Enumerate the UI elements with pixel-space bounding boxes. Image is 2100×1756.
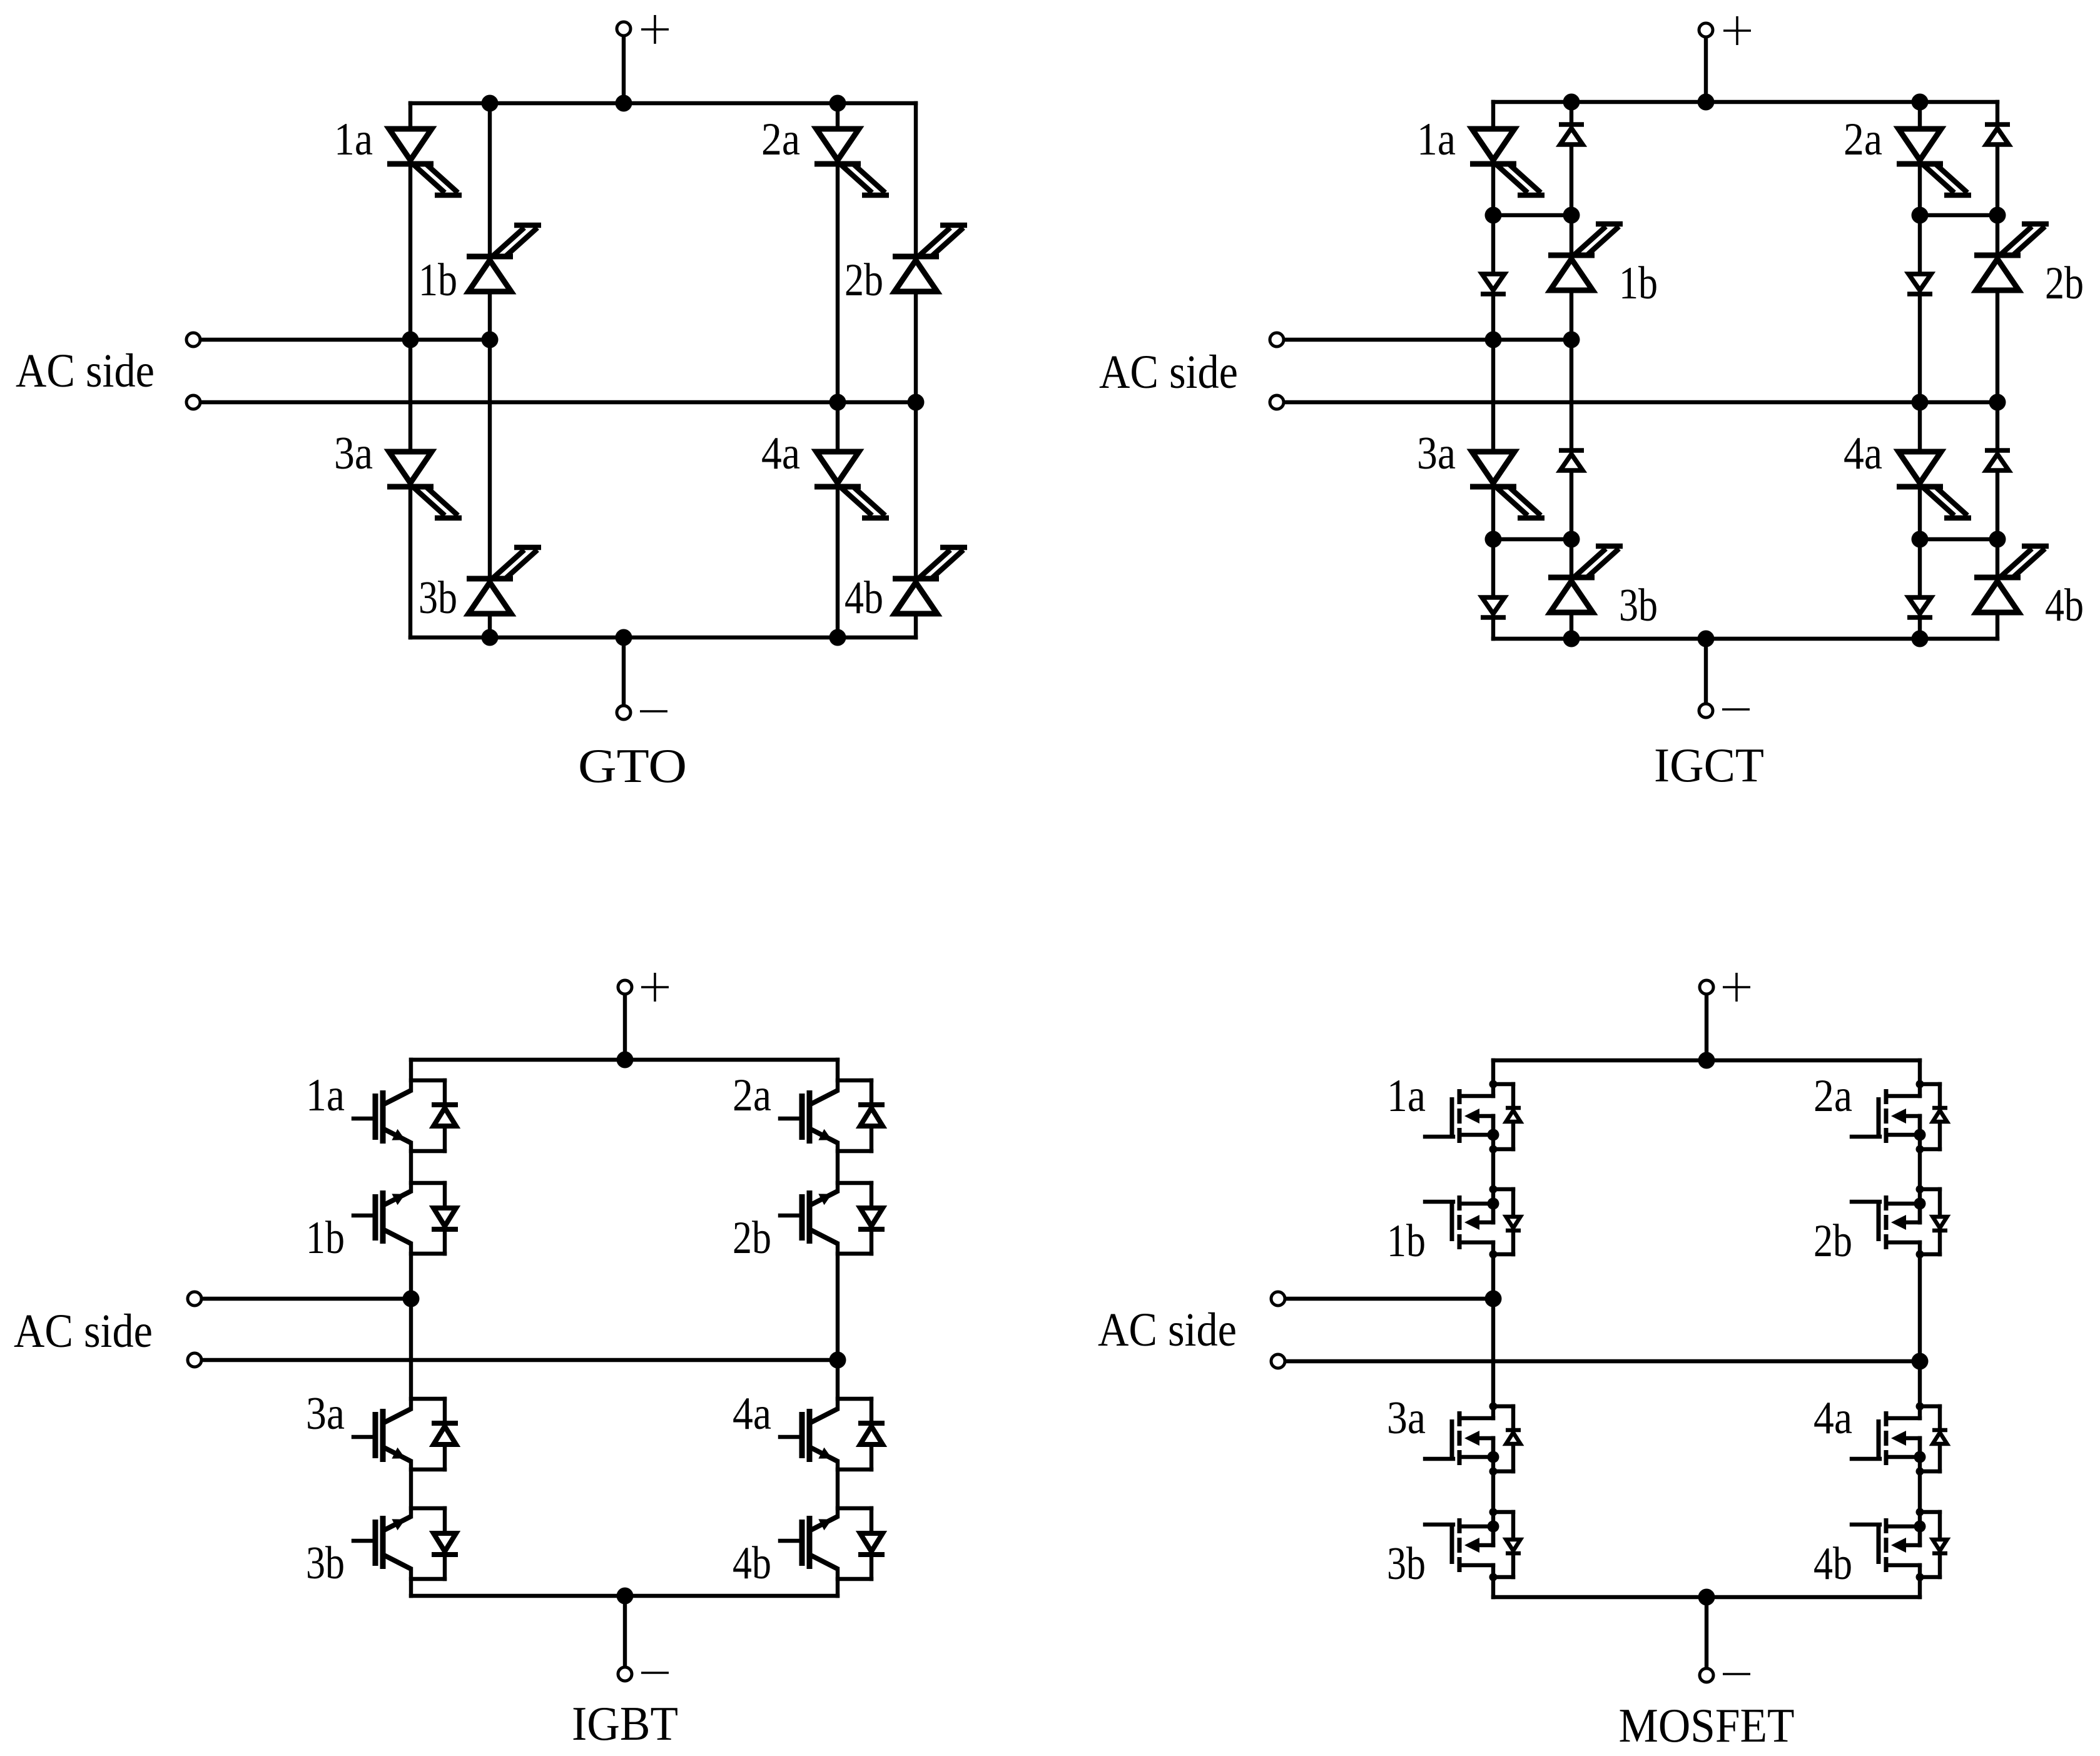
svg-text:AC side: AC side bbox=[1099, 346, 1238, 398]
junction dot GTO top bus / + bbox=[616, 95, 632, 112]
thyristor 1a (IGCT) bbox=[1470, 129, 1545, 195]
wire MOSFET upper AC lead bbox=[1285, 1297, 1493, 1301]
terminal IGCT + (positive DC) bbox=[1699, 23, 1713, 37]
terminal MOSFET AC lower bbox=[1271, 1354, 1285, 1368]
thyristor 4b (GTO) bbox=[893, 547, 967, 614]
wire diode branch of 1a bbox=[1493, 1084, 1513, 1149]
svg-text:4a: 4a bbox=[1844, 428, 1882, 479]
junction dot IGCT lower AC / rail 4a bbox=[1912, 394, 1929, 411]
svg-text:2b: 2b bbox=[733, 1212, 771, 1264]
wire diode branch of 4a bbox=[1920, 1406, 1940, 1471]
junction dot IGCT bottom bus / - bbox=[1698, 631, 1715, 647]
transistor 1a (IGBT) bbox=[353, 1090, 411, 1144]
diode in series with 1a bbox=[1481, 274, 1506, 294]
diode in series with 3b bbox=[1559, 450, 1584, 470]
wire IGBT right leg rail segment 5 bbox=[836, 1569, 839, 1596]
wire GTO upper AC lead bbox=[200, 338, 490, 342]
wire GTO positive terminal lead bbox=[622, 36, 626, 103]
terminal GTO - (negative DC) bbox=[617, 706, 631, 719]
wire IGCT rail 2a/4a bbox=[1918, 102, 1922, 639]
transistor 3b (MOSFET) bbox=[1425, 1518, 1493, 1572]
wire diode branch of 2b bbox=[838, 1183, 871, 1254]
svg-text:4b: 4b bbox=[733, 1538, 771, 1589]
terminal IGBT AC upper bbox=[188, 1292, 201, 1306]
svg-text:MOSFET: MOSFET bbox=[1619, 1698, 1795, 1752]
junction dot GTO bottom bus / 4a bbox=[829, 629, 846, 646]
junction dot IGCT node 1a-1b left bbox=[1485, 207, 1502, 224]
svg-text:2b: 2b bbox=[845, 255, 883, 306]
diode antiparallel to 1a bbox=[432, 1105, 458, 1126]
svg-text:3b: 3b bbox=[418, 572, 457, 624]
junction dot GTO upper AC / left rail bbox=[402, 332, 419, 348]
terminal IGBT + (positive DC) bbox=[618, 980, 632, 994]
wire MOSFET right leg rail segment 2 bbox=[1918, 1116, 1922, 1222]
wire MOSFET top DC bus bbox=[1493, 1058, 1920, 1062]
junction dot IGCT top bus / + bbox=[1698, 94, 1715, 111]
wire diode branch of 3a bbox=[1493, 1406, 1513, 1471]
terminal IGBT AC lower bbox=[188, 1353, 201, 1367]
wire diode branch of 4a bbox=[838, 1399, 871, 1469]
wire diode branch of 2a bbox=[1920, 1084, 1940, 1149]
wire IGBT bottom DC bus bbox=[411, 1594, 838, 1598]
thyristor 3a (IGCT) bbox=[1470, 452, 1545, 518]
diode antiparallel to 2a bbox=[858, 1105, 885, 1126]
transistor 3a (MOSFET) bbox=[1425, 1411, 1493, 1465]
svg-text:1a: 1a bbox=[306, 1070, 345, 1121]
svg-text:1b: 1b bbox=[418, 255, 457, 306]
diode in series with 4a bbox=[1907, 597, 1932, 617]
junction dot GTO top bus / 1b bbox=[482, 95, 499, 112]
diode antiparallel to 2b bbox=[858, 1208, 885, 1229]
svg-text:3a: 3a bbox=[334, 428, 373, 479]
junction dots of 3b bbox=[1488, 1508, 1499, 1581]
junction dot IGBT upper AC / left leg bbox=[403, 1291, 420, 1307]
svg-text:IGCT: IGCT bbox=[1654, 738, 1764, 792]
terminal IGCT AC lower bbox=[1270, 395, 1284, 409]
transistor 2a (IGBT) bbox=[780, 1090, 838, 1144]
svg-text:AC side: AC side bbox=[14, 1305, 153, 1358]
label + (GTO) bbox=[654, 15, 656, 44]
svg-text:1b: 1b bbox=[1387, 1215, 1426, 1267]
wire MOSFET left leg rail segment 3 bbox=[1491, 1242, 1495, 1418]
thyristor 2b (GTO) bbox=[893, 225, 967, 292]
svg-text:IGBT: IGBT bbox=[572, 1697, 678, 1750]
diode in series with 3a bbox=[1481, 597, 1506, 617]
svg-text:1a: 1a bbox=[334, 114, 373, 165]
transistor 2a (MOSFET) bbox=[1852, 1089, 1920, 1143]
diode in series with 1b bbox=[1559, 124, 1584, 145]
wire MOSFET lower AC lead bbox=[1285, 1359, 1920, 1363]
wire GTO bottom DC bus bbox=[410, 636, 916, 639]
svg-text:4a: 4a bbox=[761, 428, 800, 479]
wire IGBT right leg rail segment 1 bbox=[836, 1060, 839, 1090]
transistor 1b (MOSFET) bbox=[1425, 1195, 1493, 1249]
svg-text:AC side: AC side bbox=[16, 345, 155, 397]
diode in series with 4b bbox=[1985, 450, 2010, 470]
label + (MOSFET) bbox=[1735, 973, 1738, 1002]
wire MOSFET left leg rail segment 4 bbox=[1491, 1438, 1495, 1545]
junction dot MOSFET top bus / + bbox=[1698, 1052, 1715, 1069]
transistor 1b (IGBT) bbox=[353, 1190, 411, 1244]
wire diode branch of 4b bbox=[1920, 1512, 1940, 1577]
wire IGCT link below 2a bbox=[1920, 213, 1997, 217]
wire IGCT rail 1a/3a bbox=[1491, 102, 1495, 639]
svg-text:4b: 4b bbox=[1813, 1538, 1852, 1590]
wire MOSFET right leg rail segment 4 bbox=[1918, 1438, 1922, 1545]
wire IGCT link below 3a bbox=[1493, 537, 1571, 541]
svg-text:3a: 3a bbox=[1387, 1393, 1426, 1444]
wire diode branch of 3b bbox=[411, 1508, 445, 1579]
transistor 2b (IGBT) bbox=[780, 1190, 838, 1244]
thyristor 4a (IGCT) bbox=[1897, 452, 1971, 518]
wire IGBT positive terminal lead bbox=[623, 994, 627, 1060]
terminal MOSFET - (negative DC) bbox=[1700, 1668, 1713, 1682]
body diode of 4a bbox=[1932, 1430, 1947, 1444]
wire MOSFET right leg rail segment 3 bbox=[1918, 1242, 1922, 1418]
wire IGBT left leg rail segment 4 bbox=[409, 1461, 413, 1516]
wire MOSFET left leg rail segment 5 bbox=[1491, 1565, 1495, 1597]
wire IGCT negative terminal lead bbox=[1704, 639, 1708, 704]
transistor 4a (IGBT) bbox=[780, 1409, 838, 1462]
svg-text:4b: 4b bbox=[845, 572, 883, 624]
diode antiparallel to 3a bbox=[432, 1423, 458, 1444]
wire diode branch of 1a bbox=[411, 1080, 445, 1151]
svg-text:2b: 2b bbox=[2045, 258, 2084, 309]
svg-text:1a: 1a bbox=[1387, 1070, 1426, 1122]
diode in series with 2b bbox=[1985, 124, 2010, 145]
wire IGCT rail 2b/4b bbox=[1996, 102, 1999, 639]
svg-text:2a: 2a bbox=[1813, 1070, 1852, 1122]
transistor 1a (MOSFET) bbox=[1425, 1089, 1493, 1143]
wire GTO top DC bus bbox=[410, 101, 916, 105]
wire IGCT rail 1b/3b bbox=[1570, 102, 1573, 639]
terminal IGCT - (negative DC) bbox=[1699, 704, 1713, 718]
thyristor 3a (GTO) bbox=[387, 452, 462, 518]
junction dot IGCT bottom bus / 3b bbox=[1563, 631, 1580, 647]
terminal IGCT AC upper bbox=[1270, 333, 1284, 347]
junction dot IGCT node 4a-4b right bbox=[1989, 531, 2006, 548]
svg-text:4a: 4a bbox=[1813, 1393, 1852, 1444]
junction dot IGCT node 3a-3b left bbox=[1485, 531, 1502, 548]
svg-text:3a: 3a bbox=[1417, 428, 1456, 479]
diode antiparallel to 4a bbox=[858, 1423, 885, 1444]
junction dots of 2a bbox=[1914, 1080, 1926, 1154]
thyristor 2a (IGCT) bbox=[1897, 129, 1971, 195]
wire MOSFET right leg rail segment 1 bbox=[1918, 1060, 1922, 1096]
junction dot GTO top bus / 2a bbox=[829, 95, 846, 112]
svg-text:3b: 3b bbox=[1387, 1538, 1426, 1590]
junction dot GTO upper AC / 1b rail bbox=[482, 332, 499, 348]
wire IGBT left leg rail segment 2 bbox=[409, 1143, 413, 1191]
svg-text:2b: 2b bbox=[1813, 1215, 1852, 1267]
svg-text:3a: 3a bbox=[306, 1388, 345, 1439]
thyristor 2b (IGCT) bbox=[1974, 224, 2049, 290]
wire GTO right leg rail (2b/4b) bbox=[914, 103, 918, 637]
junction dot GTO lower AC / 2b rail bbox=[908, 394, 925, 411]
body diode of 1a bbox=[1506, 1108, 1521, 1122]
label - (MOSFET) bbox=[1723, 1673, 1750, 1675]
label + (IGBT) bbox=[654, 973, 656, 1002]
diode antiparallel to 1b bbox=[432, 1208, 458, 1229]
wire IGBT lower AC lead bbox=[201, 1358, 838, 1362]
svg-text:1b: 1b bbox=[1619, 258, 1658, 309]
transistor 3a (IGBT) bbox=[353, 1409, 411, 1462]
svg-text:AC side: AC side bbox=[1098, 1304, 1237, 1356]
wire diode branch of 3a bbox=[411, 1399, 445, 1469]
junction dot IGCT upper AC / rail 1b bbox=[1563, 332, 1580, 348]
wire IGCT link below 1a bbox=[1493, 213, 1571, 217]
wire diode branch of 1b bbox=[1493, 1189, 1513, 1254]
terminal MOSFET + (positive DC) bbox=[1700, 980, 1713, 994]
junction dots of 3a bbox=[1488, 1403, 1499, 1476]
wire diode branch of 1b bbox=[411, 1183, 445, 1254]
terminal GTO + (positive DC) bbox=[617, 22, 631, 36]
body diode of 3a bbox=[1506, 1430, 1521, 1444]
wire GTO left leg rail (1b/3b) bbox=[488, 103, 492, 637]
junction dots of 4a bbox=[1914, 1403, 1926, 1476]
terminal GTO AC upper bbox=[186, 333, 200, 347]
thyristor 2a (GTO) bbox=[814, 129, 889, 195]
wire IGBT upper AC lead bbox=[201, 1297, 411, 1301]
terminal GTO AC lower bbox=[186, 395, 200, 409]
wire GTO lower AC lead bbox=[200, 400, 916, 404]
thyristor 1a (GTO) bbox=[387, 129, 462, 195]
wire MOSFET left leg rail segment 1 bbox=[1491, 1060, 1495, 1096]
junction dot IGCT node 2a-2b left bbox=[1912, 207, 1929, 224]
terminal MOSFET AC upper bbox=[1271, 1292, 1285, 1306]
wire IGBT left leg rail segment 5 bbox=[409, 1569, 413, 1596]
wire IGBT right leg rail segment 2 bbox=[836, 1143, 839, 1191]
wire IGCT bottom DC bus bbox=[1493, 637, 1997, 641]
junction dot MOSFET bottom bus / - bbox=[1698, 1589, 1715, 1606]
terminal IGBT - (negative DC) bbox=[618, 1667, 632, 1681]
junction dot IGCT top bus / 1b bbox=[1563, 94, 1580, 111]
transistor 4b (MOSFET) bbox=[1852, 1518, 1920, 1572]
transistor 3b (IGBT) bbox=[353, 1516, 411, 1569]
wire MOSFET bottom DC bus bbox=[1493, 1595, 1920, 1599]
svg-text:2a: 2a bbox=[733, 1070, 771, 1121]
thyristor 3b (GTO) bbox=[467, 547, 541, 614]
wire IGBT right leg rail segment 4 bbox=[836, 1461, 839, 1516]
thyristor 3b (IGCT) bbox=[1548, 546, 1623, 612]
thyristor 1b (GTO) bbox=[467, 225, 541, 292]
junction dot GTO bottom bus / 3b bbox=[482, 629, 499, 646]
junction dot IGCT node 2a-2b right bbox=[1989, 207, 2006, 224]
wire diode branch of 2b bbox=[1920, 1189, 1940, 1254]
wire IGCT lower AC lead bbox=[1284, 400, 1997, 404]
wire IGBT right leg rail segment 3 bbox=[836, 1244, 839, 1409]
label + (IGCT) bbox=[1736, 16, 1738, 45]
thyristor 1b (IGCT) bbox=[1548, 224, 1623, 290]
junction dot IGCT node 4a-4b left bbox=[1912, 531, 1929, 548]
transistor 4b (IGBT) bbox=[780, 1516, 838, 1569]
junction dot MOSFET upper AC / left leg bbox=[1485, 1291, 1502, 1307]
wire MOSFET negative terminal lead bbox=[1705, 1597, 1708, 1668]
transistor 2b (MOSFET) bbox=[1852, 1195, 1920, 1249]
junction dot IGCT upper AC / rail 1a bbox=[1485, 332, 1502, 348]
label - (IGCT) bbox=[1722, 708, 1750, 711]
junction dots of 1a bbox=[1488, 1080, 1499, 1154]
wire diode branch of 3b bbox=[1493, 1512, 1513, 1577]
diode in series with 2a bbox=[1907, 274, 1932, 294]
diode antiparallel to 4b bbox=[858, 1533, 885, 1555]
junction dot IGCT top bus / 2a bbox=[1912, 94, 1929, 111]
wire MOSFET right leg rail segment 5 bbox=[1918, 1565, 1922, 1597]
junction dot MOSFET lower AC / right leg bbox=[1912, 1353, 1929, 1370]
svg-text:3b: 3b bbox=[1619, 580, 1658, 631]
label - (IGBT) bbox=[641, 1672, 669, 1674]
junction dot IGCT node 3a-3b right bbox=[1563, 531, 1580, 548]
svg-text:4b: 4b bbox=[2045, 580, 2084, 631]
thyristor 4a (GTO) bbox=[814, 452, 889, 518]
junction dots of 1b bbox=[1488, 1185, 1499, 1259]
diode antiparallel to 3b bbox=[432, 1533, 458, 1555]
body diode of 1b bbox=[1506, 1217, 1521, 1231]
thyristor 4b (IGCT) bbox=[1974, 546, 2049, 612]
body diode of 2a bbox=[1932, 1108, 1947, 1122]
junction dot IGCT node 1a-1b right bbox=[1563, 207, 1580, 224]
svg-text:1b: 1b bbox=[306, 1212, 345, 1264]
svg-text:2a: 2a bbox=[1844, 114, 1882, 165]
transistor 4a (MOSFET) bbox=[1852, 1411, 1920, 1465]
junction dots of 2b bbox=[1914, 1185, 1926, 1259]
wire IGCT top DC bus bbox=[1493, 100, 1997, 104]
svg-text:3b: 3b bbox=[306, 1538, 345, 1589]
junction dot IGBT bottom bus / - bbox=[617, 1588, 634, 1605]
wire IGBT top DC bus bbox=[411, 1058, 838, 1062]
wire IGBT negative terminal lead bbox=[623, 1596, 627, 1667]
svg-text:4a: 4a bbox=[733, 1388, 771, 1439]
junction dot GTO bottom bus / - bbox=[616, 629, 632, 646]
junction dot IGBT lower AC / right leg bbox=[829, 1352, 846, 1369]
svg-text:2a: 2a bbox=[761, 114, 800, 165]
junction dot IGBT top bus / + bbox=[617, 1052, 634, 1068]
body diode of 3b bbox=[1506, 1540, 1521, 1553]
junction dot IGCT lower AC / rail 4b bbox=[1989, 394, 2006, 411]
svg-text:GTO: GTO bbox=[578, 739, 687, 793]
junction dot IGCT bottom bus / 4a bbox=[1912, 631, 1929, 647]
junction dot GTO lower AC / 4a rail bbox=[829, 394, 846, 411]
wire IGBT left leg rail segment 3 bbox=[409, 1244, 413, 1409]
label - (GTO) bbox=[640, 710, 667, 713]
wire MOSFET positive terminal lead bbox=[1705, 994, 1708, 1060]
wire diode branch of 2a bbox=[838, 1080, 871, 1151]
wire IGCT upper AC lead bbox=[1284, 338, 1571, 342]
wire IGBT left leg rail segment 1 bbox=[409, 1060, 413, 1090]
wire IGCT positive terminal lead bbox=[1704, 37, 1708, 102]
wire MOSFET left leg rail segment 2 bbox=[1491, 1116, 1495, 1222]
wire GTO negative terminal lead bbox=[622, 637, 626, 706]
wire diode branch of 4b bbox=[838, 1508, 871, 1579]
junction dots of 4b bbox=[1914, 1508, 1926, 1581]
wire GTO right leg rail (2a/4a) bbox=[836, 103, 839, 637]
wire GTO left leg rail (1a/3a) bbox=[408, 103, 412, 637]
body diode of 4b bbox=[1932, 1540, 1947, 1553]
body diode of 2b bbox=[1932, 1217, 1947, 1231]
svg-text:1a: 1a bbox=[1417, 114, 1456, 165]
wire IGCT link below 4a bbox=[1920, 537, 1997, 541]
